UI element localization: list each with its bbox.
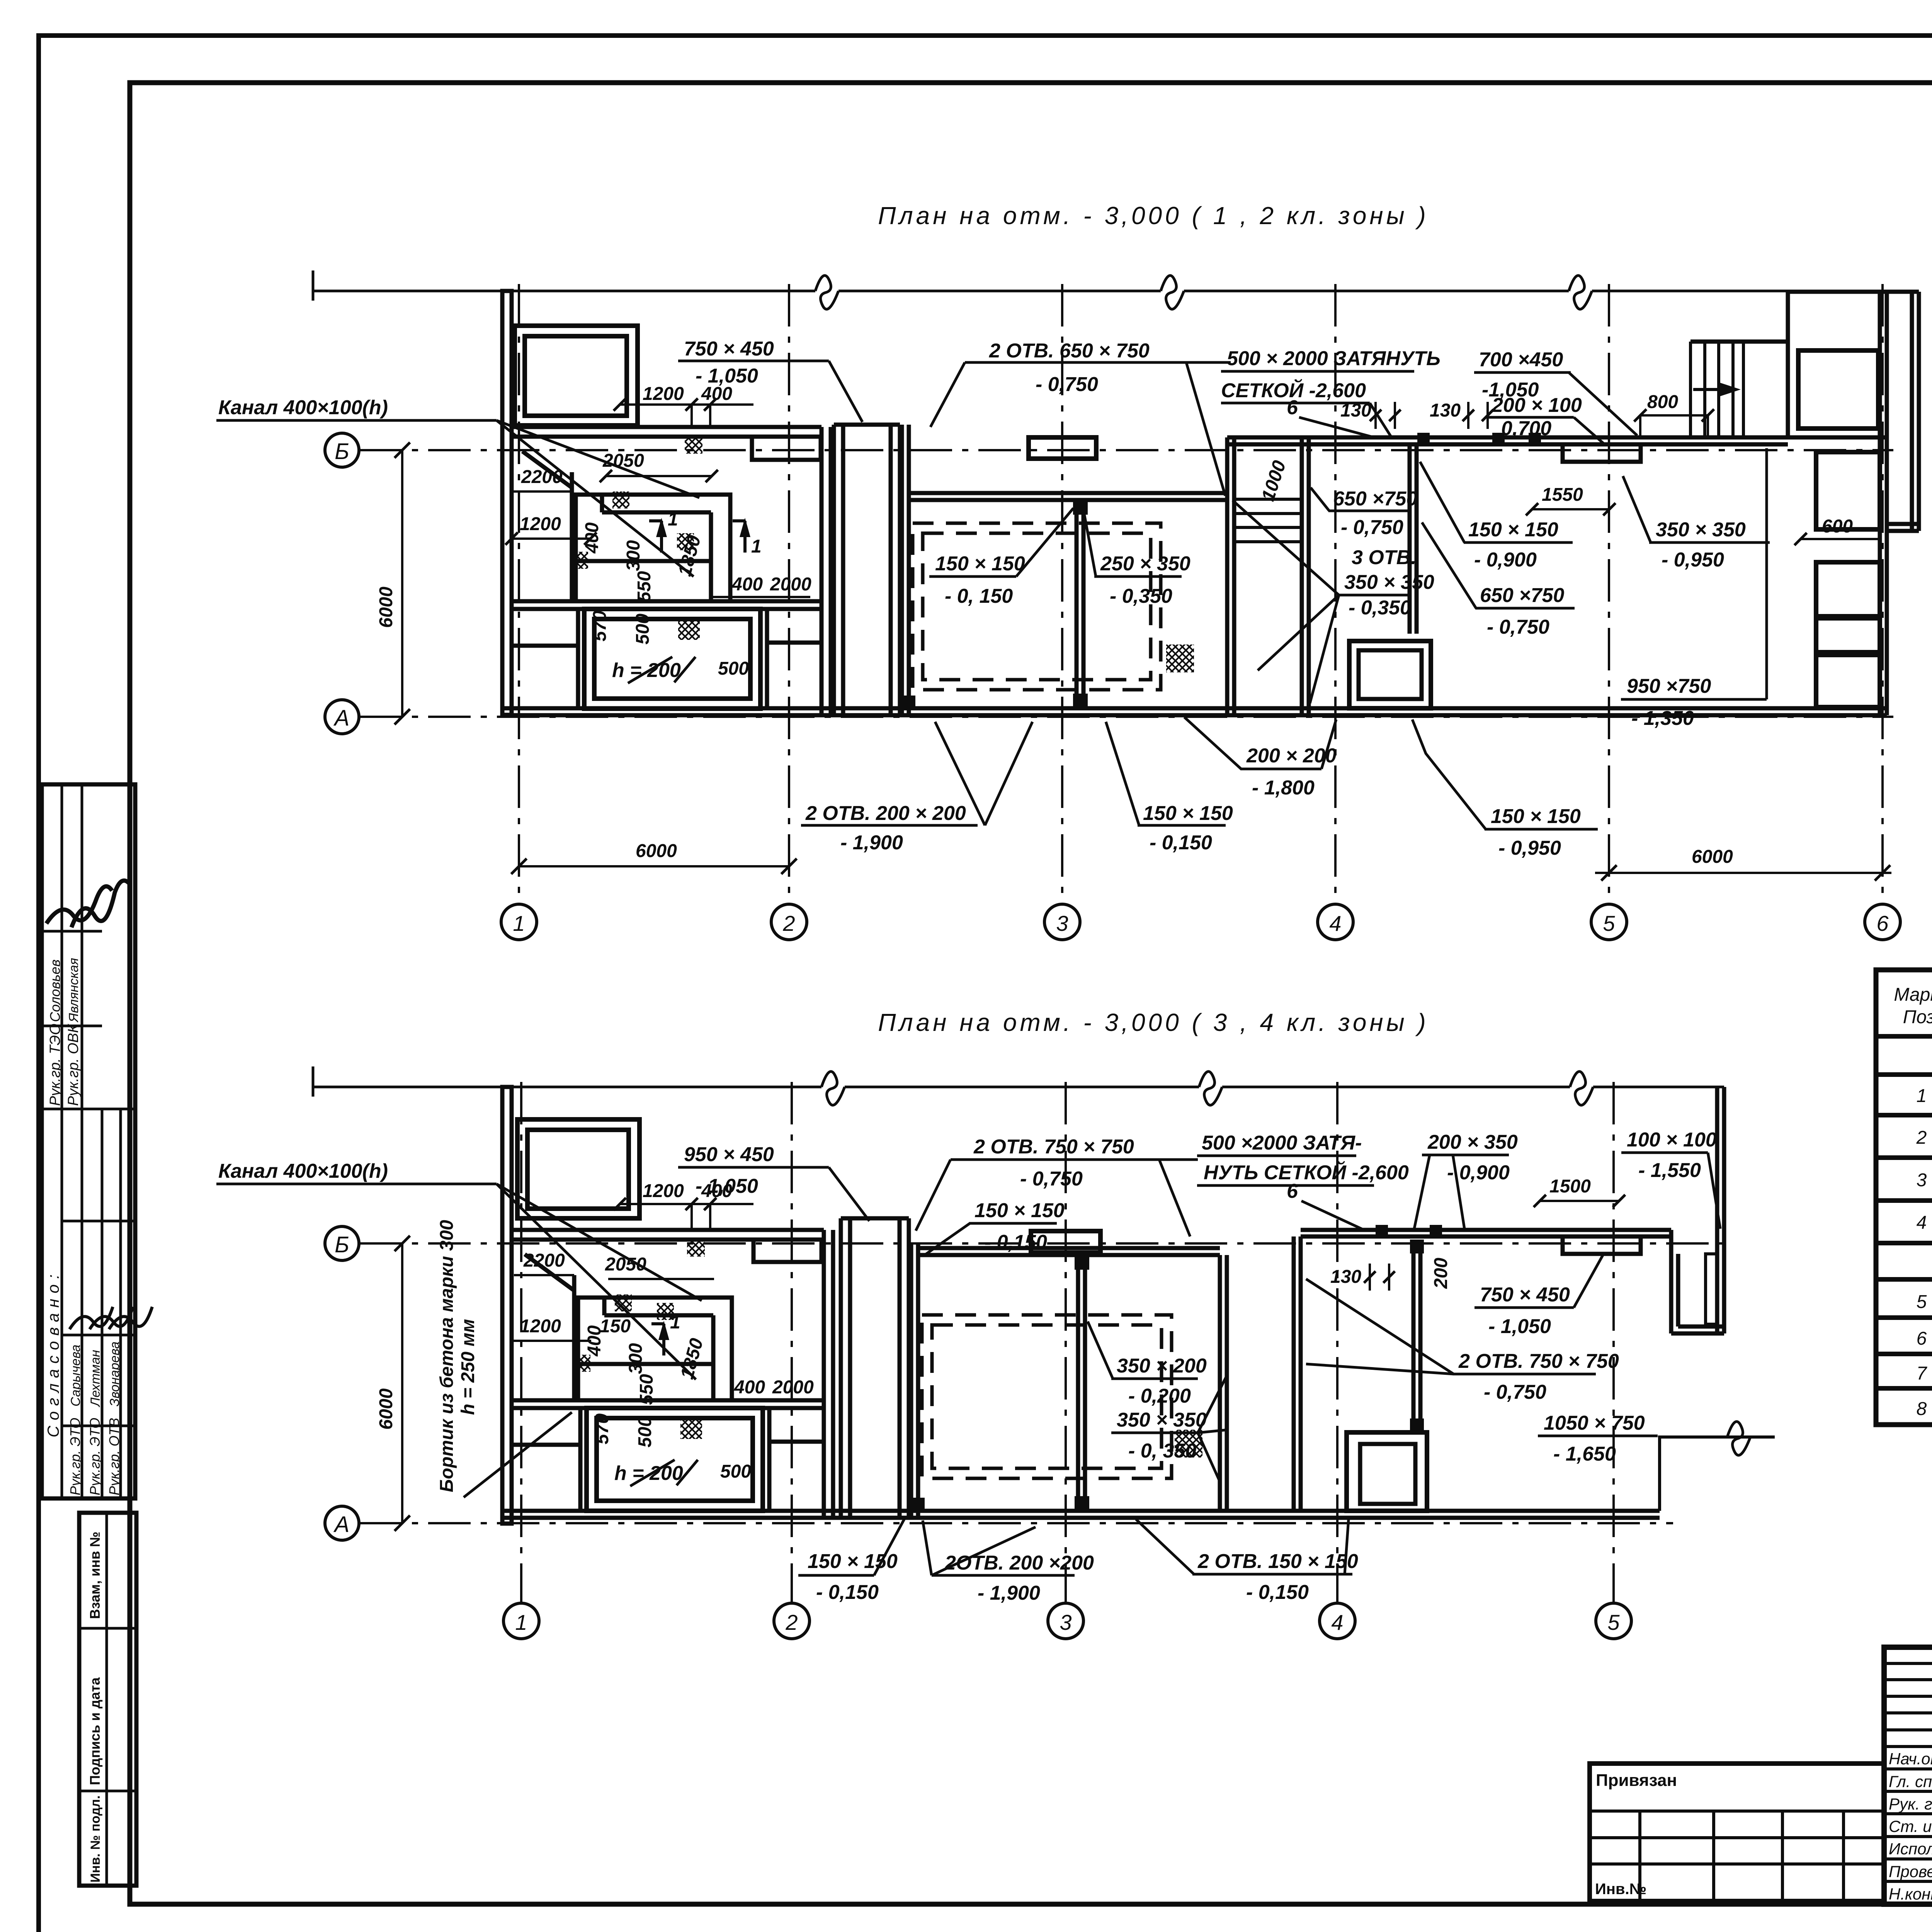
svg-text:- 0,150: - 0,150 [816,1581,879,1604]
hatch squares left section [687,1239,705,1257]
svg-text:Взам, инв №: Взам, инв № [87,1532,103,1619]
svg-text:150 × 150: 150 × 150 [1143,802,1233,825]
svg-text:- 0,900: - 0,900 [1474,549,1537,571]
Привязан box [1590,1764,1884,1901]
right wall of left section [822,1230,826,1518]
svg-text:300: 300 [623,540,644,571]
svg-text:- 1,350: - 1,350 [1631,707,1694,730]
wall vertical mid-right [1412,1240,1416,1432]
wall x=3350 vertical [1292,1236,1296,1511]
junction blobs [1075,1255,1089,1270]
stairwell walls [1225,437,1230,715]
svg-text:700 ×450: 700 ×450 [1479,349,1563,371]
column circles 1-6 [501,904,537,940]
stamp name rows [1884,1767,1932,1770]
svg-text:6000: 6000 [1692,847,1733,867]
svg-text:1: 1 [515,1610,527,1634]
lower right cells [767,1408,772,1511]
svg-text:Канал 400×100(h): Канал 400×100(h) [218,396,388,419]
underfloor channel dashed outer [922,1315,1172,1478]
svg-text:- 0, 350: - 0, 350 [1128,1440,1196,1462]
axis circle А [325,1506,359,1540]
svg-text:750 × 450: 750 × 450 [1480,1284,1570,1306]
svg-text:2000: 2000 [770,574,811,595]
svg-text:Инв. № подл.: Инв. № подл. [88,1795,103,1883]
wall below axis Б (left section) [512,425,821,429]
svg-text:Сарычева: Сарычева [68,1345,83,1406]
svg-text:150 × 150: 150 × 150 [808,1550,898,1573]
mid wall of left section [512,1398,824,1403]
svg-text:Привязан: Привязан [1596,1771,1677,1790]
svg-text:3: 3 [1056,911,1068,935]
wall x=3657 vertical [1408,444,1412,634]
svg-text:500: 500 [633,614,653,645]
lower center room inner [594,619,750,699]
svg-text:Поз.: Поз. [1903,1007,1932,1027]
svg-text:1: 1 [1917,1086,1927,1106]
svg-text:200 × 350: 200 × 350 [1427,1131,1518,1153]
mid wall of left section [512,599,821,604]
right protrusion [1910,292,1914,531]
corner diagonal [522,451,572,488]
svg-text:НУТЬ СЕТКОЙ -2,600: НУТЬ СЕТКОЙ -2,600 [1204,1161,1409,1184]
top-right block inner [1798,350,1878,429]
axis Б wall right part [1309,435,1788,440]
svg-text:h = 200: h = 200 [612,659,681,682]
svg-text:400: 400 [731,574,763,595]
svg-text:2050: 2050 [605,1254,646,1275]
svg-text:200: 200 [1431,1258,1451,1289]
left outer wall [502,291,512,715]
junction blobs [1073,500,1088,515]
svg-text:План на отм. - 3,000 ( 3 ,: План на отм. - 3,000 ( 3 , 4 кл. зоны ) [878,1009,1429,1036]
stamp upper empty rows [1884,1662,1932,1665]
svg-text:400: 400 [701,384,732,404]
svg-text:2ОТВ. 200 ×200: 2ОТВ. 200 ×200 [944,1552,1094,1574]
svg-text:350 × 350: 350 × 350 [1344,571,1434,594]
svg-text:500 × 2000 ЗАТЯНУТЬ: 500 × 2000 ЗАТЯНУТЬ [1227,347,1440,370]
hatch squares left section [685,436,702,454]
bottom right break edge [1660,1437,1775,1511]
svg-text:750 × 450: 750 × 450 [684,338,774,360]
svg-text:1200: 1200 [643,384,684,404]
hall top wall [918,1246,1220,1250]
200x200 block on axis [1031,1231,1100,1253]
break squiggle 1 [815,276,838,309]
svg-text:600: 600 [1822,516,1853,537]
svg-text:2200: 2200 [521,467,563,487]
platform walls [576,495,730,601]
svg-text:4: 4 [1329,911,1341,935]
svg-text:Рук.гр. ЭТО: Рук.гр. ЭТО [67,1418,83,1495]
svg-text:Являнская: Являнская [66,958,81,1023]
main stamp outline [1884,1647,1932,1904]
hall top wall [909,491,1227,495]
bottom-right small room outer [1349,641,1431,708]
duct strip walls [832,425,836,714]
svg-text:8: 8 [1917,1399,1927,1419]
svg-text:130: 130 [1430,400,1461,421]
svg-text:1200: 1200 [520,1316,561,1337]
svg-text:570: 570 [590,611,610,641]
svg-text:800: 800 [1647,392,1678,412]
svg-text:Провер.: Провер. [1889,1862,1932,1881]
svg-text:- 0,750: - 0,750 [1341,516,1403,539]
top-left room outer wall [515,326,638,425]
svg-text:- 0,750: - 0,750 [1036,373,1098,396]
svg-text:- 0,750: - 0,750 [1487,616,1549,638]
svg-text:- 0, 150: - 0, 150 [945,585,1013,607]
svg-text:2 ОТВ. 750 × 750: 2 ОТВ. 750 × 750 [973,1136,1134,1158]
svg-text:5: 5 [1603,911,1615,935]
svg-text:130: 130 [1330,1267,1361,1287]
top-right block outer [1788,292,1887,437]
svg-text:6000: 6000 [376,587,396,628]
lower center room outer [587,1408,763,1511]
svg-text:5: 5 [1917,1292,1927,1312]
bottom dim 6000 (5-6) [1595,872,1891,874]
svg-text:1550: 1550 [1542,485,1583,505]
svg-text:400: 400 [584,1325,605,1357]
svg-text:- 1,550: - 1,550 [1638,1159,1701,1182]
svg-text:Рук.гр. ЭТО: Рук.гр. ЭТО [87,1418,103,1495]
right wall of left section [820,427,824,715]
bottom wall of plan 1 [502,706,1887,711]
svg-text:500: 500 [720,1461,751,1482]
svg-text:100 × 100: 100 × 100 [1627,1129,1717,1151]
pier block in that wall [753,1240,821,1262]
platform walls [578,1298,732,1400]
svg-text:2000: 2000 [772,1377,814,1398]
svg-text:6: 6 [1876,911,1889,935]
bottom dim 6000 (1-2) [519,865,789,867]
svg-text:400: 400 [582,522,602,554]
underfloor channel dashed outer [913,523,1161,690]
svg-text:130: 130 [1340,400,1371,421]
row lines [1876,1072,1932,1077]
stair arrow [1693,388,1731,391]
svg-text:Подпись и дата: Подпись и дата [87,1677,103,1785]
svg-text:1: 1 [668,509,678,530]
lower center room inner [597,1418,753,1501]
svg-text:550: 550 [636,1374,657,1405]
svg-text:- 0,150: - 0,150 [985,1231,1047,1253]
svg-text:150 × 150: 150 × 150 [935,553,1025,575]
svg-text:h = 250 мм: h = 250 мм [458,1319,478,1415]
bottom-right small room inner [1359,650,1422,699]
svg-text:6000: 6000 [636,841,677,861]
staircase top right [1690,342,1743,437]
svg-text:- 0,750: - 0,750 [1484,1381,1546,1403]
svg-text:3: 3 [1917,1170,1927,1190]
lower standard boxes [79,1513,136,1886]
lower right cells [765,609,769,708]
svg-text:7: 7 [1917,1363,1928,1384]
right outer wall [1878,292,1882,715]
svg-text:Б: Б [335,439,349,464]
svg-text:1850: 1850 [677,1336,707,1381]
svg-text:150 × 150: 150 × 150 [1468,519,1558,541]
lower band walls [576,609,580,708]
vertical dim 6000 left [401,450,403,717]
bottom small room outer [1347,1432,1427,1511]
svg-text:Рук. гр.: Рук. гр. [1889,1795,1932,1813]
internal wall vertical [572,1275,577,1400]
svg-text:500 ×2000 ЗАТЯ-: 500 ×2000 ЗАТЯ- [1202,1132,1362,1154]
svg-text:Бортик из бетона марки 300: Бортик из бетона марки 300 [437,1220,457,1492]
svg-text:- 0,200: - 0,200 [1128,1385,1191,1407]
svg-text:Нач.отд: Нач.отд [1889,1750,1932,1768]
svg-text:1: 1 [751,536,762,557]
svg-text:1: 1 [513,911,525,935]
svg-text:А: А [333,706,350,731]
svg-text:Гл. спец.: Гл. спец. [1889,1772,1932,1791]
svg-text:4: 4 [1331,1610,1343,1634]
svg-text:2200: 2200 [523,1250,565,1271]
svg-text:2 ОТВ. 150 × 150: 2 ОТВ. 150 × 150 [1197,1550,1358,1573]
svg-text:Марка: Марка [1894,985,1932,1005]
svg-text:4: 4 [1917,1213,1927,1233]
svg-text:2 ОТВ. 200 × 200: 2 ОТВ. 200 × 200 [805,802,966,825]
hall left wall [909,1243,913,1518]
hall hatch [1166,645,1194,672]
top-left room inner wall [527,1130,629,1209]
svg-text:6000: 6000 [376,1388,396,1430]
svg-text:150 × 150: 150 × 150 [975,1199,1065,1222]
svg-text:Рук.гр. ОТВ: Рук.гр. ОТВ [106,1418,122,1495]
svg-text:950 × 450: 950 × 450 [684,1143,774,1166]
axis Б chain [359,1242,1727,1245]
svg-text:- 0,150: - 0,150 [1246,1581,1309,1604]
bottom wall of plan 2 [502,1509,1660,1513]
svg-text:h = 200: h = 200 [614,1462,683,1485]
svg-text:6: 6 [1287,396,1298,419]
bottom small room inner [1360,1444,1415,1504]
svg-text:650 ×750: 650 ×750 [1333,488,1417,510]
duct strip walls [839,1218,843,1518]
svg-text:Соловьев: Соловьев [47,959,63,1022]
svg-text:- 0,150: - 0,150 [1150,832,1212,854]
top-left room inner wall [525,336,627,416]
svg-text:- 1,050: - 1,050 [1488,1315,1551,1338]
lower center room outer [584,609,760,709]
axis circle А [325,700,359,734]
svg-text:3: 3 [1060,1610,1071,1634]
svg-text:- 1,900: - 1,900 [978,1582,1040,1604]
hall mid wall [1075,500,1079,708]
axis circle Б [325,433,359,467]
left outer wall [502,1087,512,1524]
corner diagonal [525,1254,574,1291]
svg-text:1050 × 750: 1050 × 750 [1544,1412,1645,1434]
svg-text:350 × 200: 350 × 200 [1117,1355,1207,1377]
stair treads [1234,499,1302,542]
svg-text:2: 2 [782,911,795,935]
svg-text:0,700: 0,700 [1501,417,1551,440]
break squiggle on edge [1727,1422,1750,1455]
axis А chain [359,716,1893,718]
svg-text:Рук.гр. ОВК: Рук.гр. ОВК [65,1023,82,1106]
svg-text:570: 570 [592,1413,612,1444]
break squiggle 3 [1570,1071,1593,1105]
svg-text:1000: 1000 [1258,458,1290,503]
hall left wall [900,425,904,715]
internal wall vertical [570,472,574,601]
svg-text:950 ×750: 950 ×750 [1627,675,1711,697]
svg-text:200 × 100: 200 × 100 [1492,394,1582,417]
top-left room outer wall [517,1119,639,1218]
section cut arrows [649,521,662,553]
svg-text:500: 500 [635,1417,655,1447]
svg-text:2: 2 [785,1610,798,1634]
break squiggle 3 [1569,276,1592,309]
svg-text:- 0,950: - 0,950 [1498,837,1561,859]
svg-text:2 ОТВ. 650 × 750: 2 ОТВ. 650 × 750 [989,340,1150,362]
svg-text:- 0,950: - 0,950 [1662,549,1724,571]
column chain lines [518,284,520,903]
svg-text:2 ОТВ. 750 × 750: 2 ОТВ. 750 × 750 [1458,1350,1619,1372]
svg-text:- 1,900: - 1,900 [840,832,903,854]
svg-text:Согласовано:: Согласовано: [44,1269,62,1437]
svg-text:3 ОТВ.: 3 ОТВ. [1352,546,1417,569]
svg-text:350 × 350: 350 × 350 [1656,519,1746,541]
svg-text:300: 300 [626,1343,646,1374]
svg-text:Лехтман: Лехтман [88,1350,103,1407]
svg-text:Ст. инж.: Ст. инж. [1889,1817,1932,1835]
svg-text:Инв.№: Инв.№ [1595,1881,1646,1898]
signature table upper block [42,784,135,1498]
axis Б chain [359,449,1893,451]
wall below axis Б (left section) [512,1228,824,1232]
svg-text:Исполн.: Исполн. [1889,1840,1932,1858]
break squiggle 1 [821,1071,845,1105]
embedded plates [1376,1225,1388,1236]
header bottom [1876,1034,1932,1039]
svg-text:2: 2 [1916,1128,1927,1148]
svg-text:1200: 1200 [643,1181,684,1201]
embedded plates [1417,433,1430,444]
axis circle Б [325,1226,359,1260]
svg-text:Рук.гр. ТЭО: Рук.гр. ТЭО [47,1024,63,1106]
svg-text:А: А [333,1512,350,1537]
top reference line [313,290,1901,293]
svg-text:650 ×750: 650 ×750 [1480,584,1564,607]
column chain lines [520,1082,522,1602]
svg-text:- 0,350: - 0,350 [1110,585,1172,607]
break squiggle 2 [1161,276,1184,309]
svg-text:План на отм. - 3,000 ( 1 ,: План на отм. - 3,000 ( 1 , 2 кл. зоны ) [878,202,1429,230]
svg-text:1200: 1200 [520,514,561,534]
svg-text:- 1,800: - 1,800 [1252,777,1315,799]
svg-text:Канал 400×100(h): Канал 400×100(h) [218,1160,388,1182]
svg-text:150 × 150: 150 × 150 [1491,805,1581,828]
wall right of hall [1218,1255,1222,1511]
hall mid wall [1076,1255,1080,1511]
axis А chain [359,1522,1673,1524]
svg-text:500: 500 [718,658,749,679]
svg-text:2050: 2050 [602,451,644,471]
right protrusion notch [1669,1230,1673,1333]
svg-text:1: 1 [670,1312,680,1333]
break squiggle 2 [1199,1071,1222,1105]
underfloor channel dashed inner [923,533,1151,680]
svg-text:Н.контр.: Н.контр. [1889,1885,1932,1903]
svg-text:5: 5 [1607,1610,1620,1634]
right cells column [1816,452,1880,529]
svg-text:250 × 350: 250 × 350 [1100,553,1190,575]
svg-text:6: 6 [1287,1180,1298,1202]
svg-text:400: 400 [734,1377,765,1398]
svg-text:- 0,350: - 0,350 [1349,597,1411,619]
svg-text:- 0,750: - 0,750 [1020,1168,1083,1190]
axis Б wall right part [1301,1228,1671,1232]
column circles 1-5 [503,1603,539,1639]
svg-text:Б: Б [335,1232,349,1257]
svg-text:350 × 350: 350 × 350 [1117,1409,1207,1431]
top reference line [313,1086,1724,1088]
section cut arrows [651,1324,664,1355]
underfloor channel dashed inner [932,1325,1162,1468]
table outline [1876,970,1932,1425]
200x200 block on axis [1029,437,1096,459]
svg-text:Звонарева: Звонарева [107,1342,122,1406]
lower band walls [578,1408,583,1511]
svg-text:6: 6 [1917,1328,1927,1349]
pier block in that wall [752,437,821,460]
duct notch 200x100 [1563,444,1641,462]
signature squiggles [46,886,112,923]
duct notch [1563,1236,1641,1254]
svg-text:- 1,650: - 1,650 [1553,1443,1616,1465]
hall hatch [1175,1430,1202,1458]
svg-text:550: 550 [634,571,655,602]
vertical dim 6000 [401,1243,403,1523]
svg-text:1500: 1500 [1549,1176,1591,1197]
